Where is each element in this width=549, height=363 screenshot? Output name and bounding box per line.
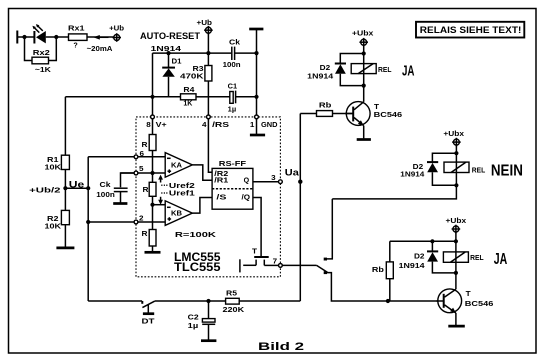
wire chain to ground [152, 246, 154, 251]
wire input column x88 [87, 157, 89, 301]
resistor R (middle) [149, 182, 156, 196]
arrow Uref1 [158, 189, 195, 205]
svg-text:+Ub: +Ub [109, 23, 125, 32]
svg-text:JA: JA [402, 63, 415, 80]
wire horizontal y96.8 to R4 [65, 96, 180, 98]
ground (pin 1 internal) [250, 134, 265, 137]
svg-text:T: T [466, 289, 472, 298]
svg-text:C2: C2 [188, 312, 199, 321]
junction relay top (bottom JA) [454, 239, 458, 243]
svg-text:Ck: Ck [100, 180, 111, 189]
pushbutton DT [142, 301, 156, 326]
ground (resistor chain) [145, 251, 161, 254]
svg-text:R: R [142, 140, 149, 149]
svg-text:JA: JA [494, 251, 508, 268]
resistor Rx2 [32, 57, 49, 64]
555 dashed box [136, 117, 280, 277]
svg-text:+Ub/2: +Ub/2 [29, 186, 60, 195]
svg-text:Ua: Ua [285, 167, 300, 177]
relay REL (top JA) [351, 64, 392, 74]
svg-text:V+: V+ [156, 120, 167, 129]
op-amp KB [165, 201, 192, 226]
diode D1 [162, 53, 181, 97]
wire right column to pin 1 [256, 29, 258, 115]
wire R2 to ground [64, 225, 66, 247]
wire chain [152, 196, 154, 229]
svg-text:KB: KB [171, 209, 182, 218]
wire pin1 to ground [256, 119, 258, 134]
junction R1 feed [150, 95, 154, 99]
wire chain [152, 151, 154, 183]
LED D [32, 24, 45, 43]
wire down-right to Rx2 [49, 37, 57, 61]
resistor R3 [205, 66, 212, 82]
wire pin7 to switch [282, 264, 316, 266]
svg-text:~1K: ~1K [35, 65, 52, 74]
svg-text:C1: C1 [228, 81, 238, 90]
wire pin4 to /R2 [208, 119, 212, 173]
wire +Ub rail y53 left [153, 52, 232, 54]
junction D2 top (bottom JA) [430, 239, 434, 243]
wire /Q to transistor T [253, 198, 261, 257]
pin 3 [279, 180, 283, 184]
junction relay bottom (NEIN) [454, 183, 458, 187]
internal resistor chain wire [152, 119, 154, 135]
svg-text:BC546: BC546 [465, 299, 494, 308]
wire +Ubx to relay (NEIN) [455, 145, 457, 185]
wire NEIN relay to switch upper contact [332, 185, 456, 199]
junction relay bottom (top JA) [362, 84, 366, 88]
wire R5 to Ua column [239, 300, 300, 302]
resistor R2 [45, 210, 70, 230]
svg-text:6: 6 [140, 149, 145, 158]
arrow Uref2 [158, 175, 195, 190]
svg-text:470K: 470K [180, 72, 205, 81]
svg-text:GND: GND [261, 120, 278, 129]
svg-text:DT: DT [142, 317, 156, 326]
junction +Ub column [206, 51, 210, 55]
ground (bottom transistor) [448, 325, 465, 328]
wire pin6 inside to KA- [138, 156, 165, 158]
svg-text:/Q: /Q [242, 192, 251, 201]
ground (R2) [56, 247, 74, 250]
svg-text:1K: 1K [183, 99, 193, 108]
wire pin5 outside [121, 172, 135, 174]
wire terminal to LED [17, 36, 34, 38]
resistor R (top) [149, 135, 156, 151]
wire relay to transistor (top JA) [363, 86, 365, 102]
svg-text:8: 8 [146, 120, 151, 129]
switch S lever [317, 265, 328, 272]
svg-text:7: 7 [273, 256, 278, 265]
ground (top transistor) [357, 138, 371, 141]
svg-text:Uref1: Uref1 [169, 189, 195, 198]
svg-text:1N914: 1N914 [399, 261, 425, 270]
junction relay bottom (bottom JA) [454, 271, 458, 275]
svg-text:+Ubx: +Ubx [446, 216, 467, 225]
svg-text:TLC555: TLC555 [174, 260, 221, 274]
wire pin6 outside [88, 156, 134, 158]
junction relay top (NEIN) [454, 151, 458, 155]
node Ue [63, 186, 67, 190]
wire +Ubx to relay (top JA) [363, 45, 365, 85]
pin 6 [134, 155, 138, 159]
resistor Rx1 [69, 34, 88, 41]
svg-text:D2: D2 [414, 252, 425, 261]
svg-text:Ck: Ck [229, 38, 240, 47]
svg-text:Rb: Rb [372, 265, 385, 274]
wire Q to pin 3 [253, 181, 279, 183]
svg-text:Rx1: Rx1 [68, 23, 85, 32]
wire Ue to divider column [65, 187, 88, 189]
svg-text:10K: 10K [45, 163, 63, 172]
junction right column top [254, 51, 258, 55]
junction Rb bottom [386, 299, 390, 303]
resistor R1 [45, 97, 70, 172]
svg-text:D1: D1 [172, 57, 182, 66]
wire +Ub rail y53 right of Ck [235, 52, 257, 54]
resistor Rb (bottom) [372, 241, 393, 301]
wire T to pin 7 [264, 264, 278, 266]
svg-text:Rx2: Rx2 [33, 48, 50, 57]
wire R4 to C1 node [196, 96, 208, 98]
wire Ua column [299, 114, 301, 302]
svg-text:+Ub: +Ub [197, 18, 213, 27]
svg-text:/R1: /R1 [214, 176, 228, 185]
svg-text:BC546: BC546 [374, 110, 403, 119]
pin 1 [255, 115, 259, 119]
junction left LED node [22, 35, 26, 39]
wire pin5 inside to KA+ [138, 172, 165, 174]
wire pin2 inside to KB+ [138, 221, 165, 223]
transistor T BC546 (bottom) [437, 289, 494, 325]
pin 4 [207, 115, 211, 119]
wire KA output to /R1 [192, 165, 212, 180]
wire V+ column to pin 8 [152, 53, 154, 115]
svg-text:Bild 2: Bild 2 [258, 341, 304, 353]
svg-text:+Ubx: +Ubx [352, 29, 374, 38]
junction right LED node [54, 35, 58, 39]
svg-text:2: 2 [139, 213, 144, 222]
svg-text:~20mA: ~20mA [87, 44, 113, 53]
ground (C2) [201, 339, 216, 342]
svg-text:R: R [143, 185, 150, 194]
svg-text:AUTO-RESET: AUTO-RESET [140, 31, 200, 42]
svg-text:RELAIS SIEHE TEXT!: RELAIS SIEHE TEXT! [420, 25, 522, 35]
svg-text:220K: 220K [223, 305, 246, 314]
svg-text:1N914: 1N914 [307, 71, 333, 80]
capacitor C1 1u [208, 81, 256, 113]
switch upper contact [324, 258, 327, 261]
svg-text:KA: KA [171, 160, 182, 169]
relay REL (bottom JA) [443, 252, 484, 262]
svg-text:?: ? [73, 41, 77, 50]
capacitor Ck 100n [223, 38, 241, 69]
power terminal +Ub (555) [197, 18, 213, 34]
wire down-left to Rx2 [25, 37, 33, 61]
power terminal +Ub (LED) [109, 23, 125, 41]
svg-text:Rb: Rb [319, 101, 332, 110]
junction Ue column [86, 186, 90, 190]
junction D1 top [166, 51, 170, 55]
node Ua [298, 180, 302, 184]
capacitor C2 1u [188, 301, 216, 340]
transistor T BC546 (top) [345, 102, 402, 139]
transistor T (discharge) [240, 246, 269, 272]
svg-text:R4: R4 [183, 85, 194, 94]
svg-text:1N914: 1N914 [151, 44, 182, 53]
svg-text:Q: Q [244, 176, 250, 185]
pin 5 [134, 171, 138, 175]
pin 7 [279, 264, 283, 268]
relay REL (NEIN) [444, 162, 486, 174]
resistor R4 [181, 94, 197, 100]
svg-text:10K: 10K [45, 222, 63, 231]
power terminal +Ubx (bottom JA) [446, 216, 467, 234]
resistor R (bottom) [149, 230, 156, 247]
wire +Ubx rail to Rb [390, 240, 456, 242]
svg-text:RS-FF: RS-FF [219, 159, 247, 168]
wire lower contact to base rail [327, 273, 443, 301]
svg-text:1µ: 1µ [188, 321, 199, 330]
svg-text:/RS: /RS [212, 120, 229, 129]
svg-text:1: 1 [250, 120, 255, 129]
svg-text:NEIN: NEIN [491, 163, 523, 180]
junction relay top (top JA) [362, 51, 366, 55]
pin 8 [151, 115, 155, 119]
junction C1 right [254, 95, 258, 99]
svg-text:+Ubx: +Ubx [443, 129, 464, 138]
wire LED to Rx1 [46, 36, 69, 38]
wire pin2 outside [88, 221, 134, 223]
svg-text:3: 3 [271, 173, 276, 182]
junction pin2 column [86, 220, 90, 224]
svg-text:REL: REL [472, 166, 486, 175]
current arrow ~20mA [98, 36, 109, 38]
svg-text:100n: 100n [96, 190, 115, 199]
switch lower contact [324, 271, 327, 274]
diode D2 (top JA) [307, 54, 364, 86]
power terminal +Ubx (NEIN) [443, 129, 464, 147]
wire DT to C2 node [155, 300, 226, 302]
svg-text:100n: 100n [223, 60, 241, 69]
wire bottom rail to DT [88, 300, 142, 302]
terminal left of LED [16, 31, 18, 44]
capacitor Ck 100n (pin5) [96, 173, 134, 203]
svg-text:5: 5 [139, 164, 144, 173]
op-amp KA [165, 153, 192, 178]
resistor Rb (top) [300, 101, 352, 117]
svg-text:T: T [252, 246, 258, 255]
ground (Ck) [113, 202, 127, 205]
box RELAIS SIEHE TEXT! [416, 22, 524, 38]
svg-text:REL: REL [378, 65, 392, 74]
junction Uref1 node [150, 203, 154, 207]
wire Uref1 node to KB- [153, 204, 166, 206]
flip-flop RS-FF [212, 159, 253, 209]
svg-text:4: 4 [202, 120, 207, 129]
svg-text:R5: R5 [226, 288, 237, 297]
wire R1 to R2 [64, 170, 66, 211]
wire KB output to /S [192, 198, 212, 214]
svg-text:R=100K: R=100K [175, 230, 217, 239]
svg-text:REL: REL [470, 253, 484, 262]
diode D2 (NEIN) [400, 153, 456, 185]
svg-text:1N914: 1N914 [400, 169, 424, 178]
diode D2 (bottom JA) [399, 241, 456, 273]
junction Uref2 node [150, 171, 154, 175]
junction C2 node [206, 299, 210, 303]
resistor R5 [223, 288, 246, 314]
svg-text:1µ: 1µ [228, 104, 237, 113]
svg-text:/S: /S [216, 192, 226, 201]
wire +Ubx to relay (bottom JA) [455, 232, 457, 273]
wire relay to transistor (bottom JA) [455, 273, 457, 289]
svg-text:R: R [142, 229, 149, 238]
wire Rx1 to +Ub [87, 36, 114, 38]
wire upper contact to NEIN [327, 199, 332, 259]
ground bar top right column [249, 28, 263, 31]
power terminal +Ubx (top JA) [352, 29, 374, 47]
pin 2 [134, 220, 138, 224]
wire +Ub to pin 4 [207, 33, 209, 115]
